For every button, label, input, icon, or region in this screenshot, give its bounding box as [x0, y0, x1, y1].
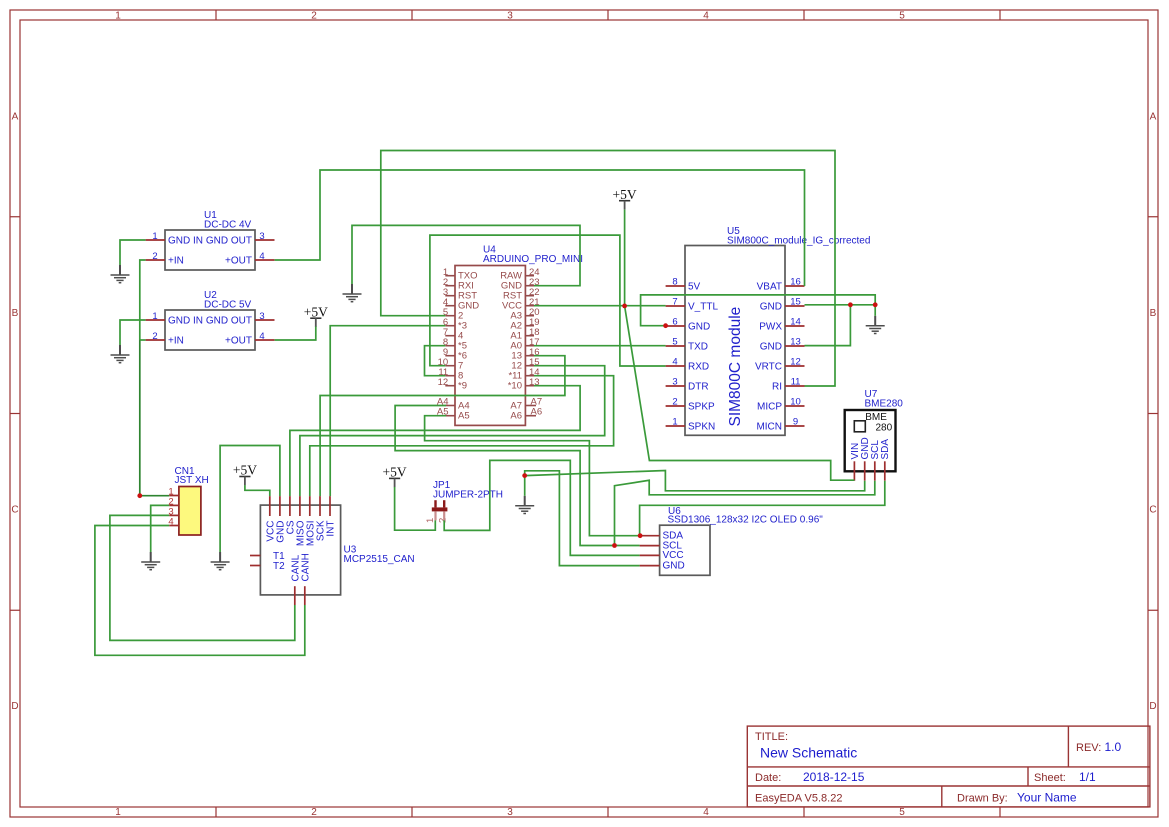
title block — [747, 726, 1150, 807]
svg-text:BME280: BME280 — [865, 398, 904, 409]
svg-text:3: 3 — [672, 377, 677, 388]
svg-text:5: 5 — [899, 807, 905, 818]
svg-text:SPKP: SPKP — [688, 402, 715, 413]
ground (U3) — [211, 552, 230, 570]
svg-text:5V: 5V — [688, 282, 701, 293]
svg-text:MICN: MICN — [756, 422, 782, 433]
svg-text:VBAT: VBAT — [757, 282, 782, 293]
IC U6 SSD1306 OLED body — [660, 525, 710, 575]
svg-text:DC-DC 5V: DC-DC 5V — [204, 300, 252, 311]
junction — [873, 302, 878, 307]
svg-text:7: 7 — [672, 297, 677, 308]
svg-text:5: 5 — [899, 11, 905, 22]
wire U1 GND IN to GND — [120, 240, 146, 265]
svg-text:Sheet:: Sheet: — [1034, 772, 1066, 784]
IC U4 ARDUINO_PRO_MINI body — [455, 266, 525, 426]
svg-text:JUMPER-2PTH: JUMPER-2PTH — [433, 490, 503, 501]
wire net TXD : U4 A0 to U5 TXD — [534, 345, 666, 347]
+5V net flag (U2 out) — [304, 304, 328, 327]
pins 1-16 of U5 — [666, 286, 805, 426]
svg-text:RI: RI — [772, 382, 782, 393]
wire U2 +IN tap — [140, 339, 146, 341]
svg-text:14: 14 — [790, 317, 801, 328]
jumper JP1 body bar — [432, 507, 448, 511]
pins 1-24 and A4-A7 of U4 — [445, 276, 536, 416]
IC U7 BME280 body — [845, 410, 896, 471]
junction — [137, 493, 142, 498]
svg-text:3: 3 — [507, 11, 513, 22]
svg-text:13: 13 — [790, 337, 801, 348]
svg-text:C: C — [11, 505, 18, 516]
svg-text:A5: A5 — [458, 411, 470, 422]
pin numbers of JP1 — [425, 518, 449, 523]
svg-text:TITLE:: TITLE: — [755, 731, 788, 743]
svg-text:5: 5 — [672, 337, 677, 348]
svg-text:1: 1 — [152, 311, 157, 322]
pin numbers of U5 — [672, 277, 800, 428]
wire net GND : drop to ground — [874, 305, 876, 316]
ground (OLED) — [515, 496, 534, 514]
junction — [638, 533, 643, 538]
svg-text:+IN: +IN — [168, 256, 184, 267]
svg-text:8: 8 — [672, 277, 677, 288]
svg-text:BME: BME — [865, 412, 887, 423]
svg-text:3: 3 — [259, 231, 264, 242]
svg-text:16: 16 — [790, 277, 801, 288]
svg-text:12: 12 — [438, 377, 449, 388]
svg-text:GND: GND — [688, 322, 710, 333]
wire net GND : drop to ground — [524, 476, 526, 496]
svg-text:INT: INT — [326, 521, 337, 537]
svg-text:SDA: SDA — [880, 439, 891, 460]
svg-text:*10: *10 — [508, 381, 522, 392]
svg-text:PWX: PWX — [759, 322, 782, 333]
pin numbers of CN1 — [168, 487, 173, 528]
svg-text:B: B — [12, 308, 19, 319]
svg-text:+5V: +5V — [613, 187, 637, 202]
wire net 4V : U1 +OUT to U5 VBAT — [275, 170, 805, 286]
svg-text:SSD1306_128x32 I2C OLED 0.96": SSD1306_128x32 I2C OLED 0.96" — [668, 514, 824, 525]
wire net +5V : U2 +OUT — [275, 327, 316, 341]
svg-text:2: 2 — [152, 331, 157, 342]
svg-text:GND IN: GND IN — [168, 236, 203, 247]
+5V net flag (U3) — [233, 463, 257, 486]
svg-text:D: D — [11, 701, 18, 712]
wire net IN+ : U1 +IN upper — [140, 260, 146, 340]
pins 1-4 of CN1 — [169, 496, 179, 526]
wire CN1 pin2 to GND — [151, 505, 170, 552]
wire net GND : U5 pin6 over-box run — [641, 295, 876, 326]
wire net GND : to U6 GND — [525, 471, 640, 566]
svg-text:CANH: CANH — [300, 553, 311, 581]
ground (U1) — [111, 265, 130, 283]
svg-text:RXD: RXD — [688, 362, 709, 373]
wire net SDA : U4 A5 to U6 SDA — [425, 416, 640, 536]
wire U4 GND pin23 to GND — [352, 225, 580, 285]
svg-text:+5V: +5V — [383, 465, 407, 480]
svg-text:New Schematic: New Schematic — [760, 745, 857, 761]
junction — [522, 473, 527, 478]
wire net +5V : flag drop — [624, 210, 626, 306]
svg-text:SIM800C_module_IG_corrected: SIM800C_module_IG_corrected — [727, 236, 870, 247]
wire net MISO : U3 MISO to U4 pin15 — [300, 366, 605, 496]
svg-text:GND OUT: GND OUT — [206, 236, 252, 247]
svg-text:1/1: 1/1 — [1079, 770, 1096, 784]
junction — [612, 543, 617, 548]
IC U5 SIM800C_module_IG_corrected body — [685, 246, 785, 436]
ground (U4) — [343, 284, 362, 302]
svg-text:1: 1 — [115, 807, 121, 818]
svg-text:SIM800C module: SIM800C module — [727, 307, 744, 427]
svg-text:+OUT: +OUT — [225, 256, 252, 267]
wire net VCC_OLED : JP1 pin2 to U6 VCC — [444, 460, 639, 555]
svg-text:2: 2 — [311, 11, 317, 22]
svg-text:SPKN: SPKN — [688, 422, 715, 433]
wire U2 GND IN to GND — [120, 320, 146, 345]
svg-text:C: C — [1149, 505, 1156, 516]
svg-text:MCP2515_CAN: MCP2515_CAN — [344, 554, 415, 565]
svg-text:2018-12-15: 2018-12-15 — [803, 770, 865, 784]
pin names of U7 — [850, 437, 891, 459]
wire net INT : U4 *3 to U3 INT — [330, 326, 445, 496]
pins VCC GND CS MISO MOSI SCK INT T1 T2 CANL CANH of U3 — [250, 496, 330, 605]
wire net GND : U5 GND13 branch — [805, 305, 851, 346]
svg-text:2: 2 — [672, 397, 677, 408]
svg-text:+OUT: +OUT — [225, 336, 252, 347]
pin numbers of U4 — [437, 267, 542, 418]
svg-text:GND: GND — [663, 560, 685, 571]
wire net CS : U3 CS to U4 pin13 — [290, 386, 580, 496]
wire net +5V : U4 VCC to U5 V_TTL — [534, 305, 666, 307]
pin names of U1 — [168, 236, 252, 267]
svg-text:VRTC: VRTC — [755, 362, 782, 373]
svg-text:TXD: TXD — [688, 342, 708, 353]
wire net IN+ : down to CN1 pin1 — [140, 340, 169, 496]
pin names of U6 — [663, 531, 685, 572]
wire net SCK : U3 SCK to U4 pin16 — [320, 356, 565, 496]
BME280 package drawing square — [854, 421, 865, 432]
ground (U5) — [866, 316, 885, 334]
svg-text:9: 9 — [793, 417, 798, 428]
svg-text:+IN: +IN — [168, 336, 184, 347]
svg-text:4: 4 — [259, 251, 264, 262]
svg-text:15: 15 — [790, 297, 801, 308]
svg-text:Date:: Date: — [755, 772, 781, 784]
svg-text:V_TTL: V_TTL — [688, 302, 718, 313]
pins 1-4 of U1 — [146, 240, 275, 260]
wire net CANH : CN1 pin4 loop — [95, 526, 305, 656]
junction — [848, 302, 853, 307]
wire net RXD : U5 RXD to U4 pin10 — [430, 235, 666, 366]
svg-text:A6: A6 — [510, 411, 522, 422]
svg-text:REV:: REV: — [1076, 742, 1101, 754]
IC U3 MCP2515_CAN body — [260, 505, 340, 595]
wire net GND : sloped run to U7 GND — [525, 471, 865, 491]
svg-text:GND: GND — [760, 342, 782, 353]
svg-text:EasyEDA V5.8.22: EasyEDA V5.8.22 — [755, 793, 842, 805]
svg-text:1.0: 1.0 — [1105, 740, 1122, 754]
svg-text:1: 1 — [115, 11, 121, 22]
wire net MOSI : U3 MOSI to U4 pin14 — [310, 376, 614, 496]
+5V net flag (JP1) — [383, 465, 407, 488]
svg-text:1: 1 — [425, 518, 436, 523]
pins SDA SCL VCC GND of U6 — [640, 536, 660, 566]
pins VIN GND SCL SDA of U7 — [854, 461, 884, 480]
svg-text:Your Name: Your Name — [1017, 791, 1077, 805]
junction — [663, 323, 668, 328]
svg-text:A: A — [12, 112, 19, 123]
svg-text:6: 6 — [672, 317, 677, 328]
ground (U2) — [111, 345, 130, 363]
svg-text:T2: T2 — [273, 561, 285, 572]
svg-text:*9: *9 — [458, 381, 467, 392]
svg-text:10: 10 — [790, 397, 801, 408]
svg-text:D: D — [1149, 701, 1156, 712]
svg-text:GND: GND — [760, 302, 782, 313]
svg-text:+5V: +5V — [233, 463, 257, 478]
junction — [622, 304, 627, 309]
svg-text:MICP: MICP — [757, 402, 782, 413]
svg-text:A: A — [1150, 112, 1157, 123]
pin names of U3 — [265, 520, 336, 581]
wire net SCL : branch to U7 SCL — [615, 480, 875, 545]
pin names of U4 — [458, 271, 522, 422]
wire U4 pin8 *5 to pin11 8 — [425, 346, 446, 376]
wire net D2 : U4 pin5 to U5 RI — [381, 151, 835, 387]
svg-text:GND IN: GND IN — [168, 316, 203, 327]
svg-text:2: 2 — [438, 518, 449, 523]
svg-text:4: 4 — [703, 11, 709, 22]
svg-text:3: 3 — [259, 311, 264, 322]
svg-text:4: 4 — [259, 331, 264, 342]
pin numbers of U1 — [152, 231, 264, 262]
pins 1-2 of JP1 — [436, 500, 445, 520]
pins 1-4 of U2 — [146, 320, 275, 340]
svg-text:280: 280 — [876, 422, 893, 433]
svg-text:4: 4 — [703, 807, 709, 818]
svg-text:12: 12 — [790, 357, 801, 368]
svg-text:1: 1 — [152, 231, 157, 242]
svg-text:2: 2 — [152, 251, 157, 262]
IC U2 DC-DC 5V body — [165, 310, 255, 350]
svg-text:JST XH: JST XH — [175, 475, 209, 486]
wire net +5V : to U7 VIN — [625, 306, 855, 480]
wire net SCL : U4 A4 to U6 SCL — [395, 406, 639, 546]
wire net +5V : U3 VCC — [245, 485, 270, 496]
svg-text:Drawn By:: Drawn By: — [957, 793, 1008, 805]
wire net CANL : CN1 pin3 loop — [110, 515, 295, 640]
svg-text:2: 2 — [311, 807, 317, 818]
pin names of U2 — [168, 316, 252, 347]
svg-text:1: 1 — [672, 417, 677, 428]
svg-text:DC-DC 4V: DC-DC 4V — [204, 220, 252, 231]
svg-text:DTR: DTR — [688, 382, 709, 393]
+5V net flag (VCC rail) — [613, 187, 637, 210]
svg-text:ARDUINO_PRO_MINI: ARDUINO_PRO_MINI — [483, 254, 583, 265]
pin numbers of U2 — [152, 311, 264, 342]
wire net SDA : branch to U7 SDA — [640, 481, 885, 536]
IC U1 DC-DC 4V body — [165, 230, 255, 270]
svg-text:3: 3 — [507, 807, 513, 818]
svg-text:4: 4 — [672, 357, 677, 368]
pin names of U5 — [688, 282, 782, 433]
svg-text:A6: A6 — [531, 407, 543, 418]
svg-text:GND OUT: GND OUT — [206, 316, 252, 327]
svg-text:11: 11 — [791, 377, 801, 388]
svg-text:+5V: +5V — [304, 304, 328, 319]
connector CN1 JST XH body — [179, 487, 201, 536]
wire U3 GND to ground arch — [220, 446, 280, 553]
ground (CN1) — [141, 552, 160, 570]
wire net +5V : flag to JP1 pin1 — [395, 487, 436, 530]
svg-text:B: B — [1150, 308, 1157, 319]
wire net GND : U5 GND15 row — [805, 304, 876, 306]
